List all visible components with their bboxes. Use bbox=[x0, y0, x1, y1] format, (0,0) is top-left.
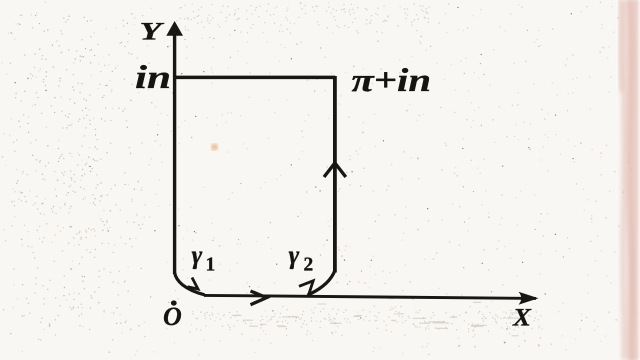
svg-text:π+in: π+in bbox=[352, 63, 432, 99]
Y axis arrowhead bbox=[166, 21, 183, 36]
gamma2 indentation arc bbox=[308, 271, 335, 296]
orange speck bbox=[211, 144, 217, 150]
up arrow chevron on right side bbox=[324, 163, 346, 177]
X axis bbox=[204, 295, 536, 298]
top side of contour bbox=[173, 76, 335, 80]
svg-text:in: in bbox=[135, 60, 171, 96]
gamma1 arrow chevron bbox=[188, 278, 199, 290]
right side of contour bbox=[333, 76, 337, 273]
svg-text:1: 1 bbox=[206, 255, 216, 276]
svg-text:γ: γ bbox=[192, 241, 203, 270]
pink scan band right edge bbox=[617, 0, 640, 360]
gamma2 arrow chevron bbox=[299, 281, 313, 295]
gamma1 indentation arc bbox=[175, 273, 205, 295]
mid chevron arrow on X axis bbox=[251, 291, 267, 305]
svg-text:2: 2 bbox=[304, 255, 314, 276]
svg-text:X: X bbox=[512, 305, 532, 332]
origin dot bbox=[171, 300, 177, 305]
X axis end arrowhead bbox=[519, 292, 539, 305]
Y axis (left side of contour) bbox=[173, 33, 176, 274]
svg-text:O: O bbox=[163, 302, 182, 331]
svg-text:γ: γ bbox=[289, 241, 300, 270]
